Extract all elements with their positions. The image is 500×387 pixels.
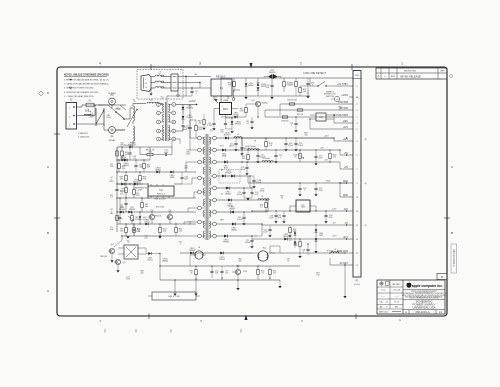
svg-text:7: 7 bbox=[173, 113, 174, 115]
transistor Q5 bbox=[115, 259, 120, 264]
wire hv to T3 pin bbox=[189, 120, 191, 138]
resistor R44 bbox=[139, 176, 142, 181]
svg-text:R26 604: R26 604 bbox=[282, 120, 289, 122]
J2 pin 10 bbox=[349, 210, 353, 212]
bottom resistor block bbox=[152, 292, 196, 300]
J2 pin 15 bbox=[349, 264, 353, 266]
diode CR44 bbox=[156, 171, 159, 174]
svg-text:120V: 120V bbox=[138, 190, 143, 192]
ground Q4 bbox=[110, 260, 113, 262]
fold arrow top bbox=[250, 63, 253, 69]
diode CR43 bbox=[124, 159, 127, 162]
svg-text:2: 2 bbox=[300, 62, 302, 66]
svg-text:1.2KV: 1.2KV bbox=[186, 153, 192, 155]
svg-text:22: 22 bbox=[138, 231, 140, 233]
wire T2 to rectifier bbox=[176, 104, 183, 106]
zener VR1 bbox=[139, 216, 142, 219]
resistor R32 bbox=[195, 270, 198, 275]
J2 pin 12 bbox=[349, 224, 353, 226]
svg-text:A: A bbox=[47, 289, 49, 293]
T3 primary pin b bbox=[198, 148, 202, 152]
diode CR24 bbox=[190, 252, 193, 255]
svg-text:1N4934: 1N4934 bbox=[229, 209, 235, 211]
resistor R18 bbox=[203, 120, 205, 125]
wire up right bbox=[279, 96, 281, 104]
J2 pin 5 bbox=[349, 154, 353, 156]
cap bank c55 bbox=[294, 142, 297, 144]
filter caps C19 C20 bbox=[242, 191, 245, 193]
svg-text:BR1: BR1 bbox=[223, 109, 228, 111]
svg-text:2N4403: 2N4403 bbox=[261, 103, 267, 105]
ground C16 bbox=[240, 153, 243, 155]
rail E horizontal bbox=[117, 197, 196, 199]
revision history table bbox=[376, 68, 447, 79]
svg-text:470uF: 470uF bbox=[237, 219, 243, 221]
wire r2 row bbox=[221, 116, 246, 118]
capacitor C10 bbox=[132, 228, 135, 230]
svg-text:2.2: 2.2 bbox=[260, 207, 263, 209]
wire bottom join bbox=[221, 278, 223, 280]
extra rail T2 right to T3 bbox=[176, 121, 196, 123]
T3 secondary pin 3 bbox=[213, 160, 217, 164]
note ground symbol 4 bbox=[69, 87, 72, 89]
cap C41 bbox=[134, 164, 137, 166]
wire bridge left down bbox=[213, 109, 215, 121]
zone tick bottom bbox=[148, 314, 150, 320]
pulse transformer T4A bbox=[195, 251, 203, 259]
circled +40 callout bbox=[334, 96, 339, 101]
svg-text:1N4002: 1N4002 bbox=[133, 181, 140, 183]
wire J1 lower to T1 bbox=[77, 123, 105, 125]
EMI line filter dashed enclosure bbox=[137, 70, 183, 100]
J2 pin 1 bbox=[349, 103, 353, 105]
rail mid top bbox=[221, 95, 310, 97]
capacitor C22 bbox=[250, 239, 253, 241]
svg-text:BAT RETURN: BAT RETURN bbox=[334, 114, 349, 117]
svg-text:B: B bbox=[451, 231, 453, 235]
svg-text:9: 9 bbox=[173, 131, 174, 133]
resistor R6 bbox=[141, 203, 144, 208]
resistor R40 bbox=[121, 151, 124, 156]
ground rail right bbox=[298, 256, 301, 258]
rectifier CR11 bbox=[222, 148, 225, 151]
rail D horizontal bbox=[117, 183, 148, 185]
wire filter to relay bottom bbox=[178, 87, 200, 89]
resistor R43 bbox=[125, 176, 128, 181]
filter choke L2 bbox=[234, 137, 242, 138]
left mesh bus bbox=[116, 147, 118, 232]
svg-text:L4 40uH: L4 40uH bbox=[262, 158, 270, 160]
svg-text:1N4446: 1N4446 bbox=[123, 165, 129, 167]
svg-text:1N914: 1N914 bbox=[219, 259, 224, 261]
-12 rail bbox=[252, 210, 349, 212]
svg-text:470: 470 bbox=[273, 272, 276, 274]
resistor R41 bbox=[118, 164, 121, 169]
wire to C16 bbox=[241, 138, 243, 146]
capacitor C16 electrolytic bbox=[240, 146, 243, 148]
ground under relay bbox=[215, 96, 217, 99]
diode CR42 bbox=[121, 159, 124, 162]
wire snubber up bbox=[139, 147, 141, 155]
svg-text:K1: K1 bbox=[220, 86, 224, 90]
T3 primary pin c bbox=[198, 160, 202, 164]
title block left column grid bbox=[402, 280, 404, 314]
transistor Q4 bbox=[109, 248, 114, 253]
ground mid bbox=[158, 236, 161, 238]
zener VR4 stack bbox=[315, 229, 318, 232]
cap C70 bbox=[220, 270, 223, 272]
zone tick bottom 2 bbox=[355, 314, 357, 320]
wire T2 top to relay bbox=[166, 96, 168, 102]
fold arrow bottom bbox=[245, 315, 248, 321]
resistor R33 bbox=[257, 270, 260, 275]
svg-text:P GND: P GND bbox=[327, 250, 334, 252]
svg-text:.01: .01 bbox=[287, 260, 289, 262]
svg-text:R24 PLUM: R24 PLUM bbox=[287, 99, 297, 101]
svg-text:.X ±.1: .X ±.1 bbox=[381, 290, 386, 292]
svg-text:+170V: +170V bbox=[189, 101, 196, 103]
svg-text:L3 40uH: L3 40uH bbox=[248, 146, 256, 148]
svg-text:INITIAL RELEASE: INITIAL RELEASE bbox=[400, 75, 421, 78]
J2 pin 14 bbox=[349, 252, 353, 254]
svg-text:1: 1 bbox=[158, 104, 159, 106]
T3 primary pin h bbox=[198, 234, 202, 238]
rectifier CR2 bbox=[182, 116, 185, 119]
svg-text:240VAC: 240VAC bbox=[108, 139, 116, 142]
svg-text:L2: L2 bbox=[237, 134, 239, 136]
T2 pin 6 bbox=[172, 103, 176, 107]
wire interlock to J2 bbox=[334, 85, 349, 87]
resistor R15 bbox=[147, 153, 153, 155]
svg-text:.1: .1 bbox=[304, 190, 306, 192]
wire stub s1 bbox=[299, 86, 301, 96]
control IC U1 bbox=[148, 186, 174, 196]
wire relay to T2 area bbox=[220, 99, 222, 103]
junction dots secondary bbox=[241, 149, 242, 150]
resistor R46 bbox=[133, 228, 136, 233]
rail bottom feedback bbox=[180, 252, 252, 254]
secondary extra C51 bbox=[274, 154, 277, 156]
svg-text:-12V: -12V bbox=[332, 208, 337, 210]
T3 secondary pin 2 bbox=[213, 148, 217, 152]
wire stub bbox=[295, 90, 297, 96]
svg-text:+40: +40 bbox=[336, 99, 339, 101]
T2 pin 3 bbox=[157, 120, 161, 124]
voltage select switch S1 bbox=[116, 112, 124, 119]
svg-text:1: 1 bbox=[401, 62, 403, 66]
svg-text:3. DENOTES POWER GROUND.: 3. DENOTES POWER GROUND. bbox=[64, 88, 94, 90]
left column resistor Rc bbox=[116, 216, 119, 221]
secondary area extra cap bank bbox=[284, 142, 287, 144]
svg-text:330: 330 bbox=[305, 134, 308, 136]
transistor Q2 bbox=[167, 214, 172, 219]
rail7 secondary bbox=[217, 211, 250, 213]
wire filter to relay top bbox=[178, 76, 211, 78]
wire CR1 to CR2 bbox=[182, 110, 184, 116]
diode CR41 bbox=[129, 146, 132, 149]
svg-text:VM68: VM68 bbox=[223, 100, 228, 102]
svg-text:25EV: 25EV bbox=[109, 181, 114, 183]
svg-text:G: G bbox=[145, 83, 147, 85]
diode CR6 bbox=[120, 211, 123, 214]
svg-text:100: 100 bbox=[333, 157, 336, 159]
svg-text:REG 4.7: REG 4.7 bbox=[157, 194, 166, 196]
zone tick right bbox=[444, 217, 450, 219]
svg-text:APP: APP bbox=[441, 70, 446, 73]
svg-text:4. DENOTES SECONDARY GRO: 4. DENOTES SECONDARY GROUND. bbox=[64, 91, 99, 94]
zone tick left bbox=[54, 133, 60, 135]
svg-text:B: B bbox=[47, 231, 49, 235]
gnd bus sec bbox=[248, 182, 349, 184]
metric cell bbox=[380, 282, 383, 285]
bottom rail 2 bbox=[160, 265, 300, 267]
T3 secondary pin 5 bbox=[213, 186, 217, 190]
svg-text:LOW LINE DETECT: LOW LINE DETECT bbox=[303, 72, 326, 75]
inductor L3 bbox=[248, 149, 259, 150]
drop from filter wires to primary bbox=[185, 77, 187, 97]
diode CR61 bbox=[234, 116, 237, 119]
capacitor C25 bbox=[270, 84, 273, 86]
zener stack VR5 bbox=[294, 232, 297, 235]
svg-text:.047: .047 bbox=[225, 272, 228, 274]
svg-text:UNIVERSAL USA: UNIVERSAL USA bbox=[412, 306, 435, 310]
wire primary feed 3 bbox=[194, 191, 197, 193]
svg-text:1N4B: 1N4B bbox=[170, 177, 175, 179]
svg-text:2N2646: 2N2646 bbox=[162, 260, 168, 262]
svg-text:4: 4 bbox=[99, 62, 101, 66]
left column resistor Ra bbox=[116, 151, 119, 156]
svg-text:U1: U1 bbox=[159, 188, 163, 192]
secondary extra caps row1 bbox=[234, 142, 237, 144]
svg-text:GND: GND bbox=[326, 180, 331, 182]
svg-text:8: 8 bbox=[173, 122, 174, 124]
resistor R4 bbox=[125, 188, 128, 193]
note ground symbol 3 bbox=[69, 79, 72, 81]
revision diamond marker bbox=[39, 91, 44, 96]
wire primary feed 5 bbox=[184, 221, 197, 223]
junction bbox=[241, 161, 242, 162]
resistor R16 bbox=[195, 126, 198, 131]
wire T5 to rail bbox=[158, 253, 160, 255]
T2 pin 4 bbox=[157, 129, 161, 133]
rail G horizontal bbox=[117, 223, 196, 225]
resistor R30 bbox=[299, 242, 302, 247]
capacitor C8 bbox=[124, 202, 127, 204]
diode CR20 pair bbox=[257, 83, 260, 86]
grounds bottom bbox=[173, 294, 176, 296]
wire T2-9 to hv bbox=[175, 121, 177, 123]
svg-text:470: 470 bbox=[120, 194, 123, 196]
drop 2 bbox=[193, 88, 195, 99]
svg-text:1N914: 1N914 bbox=[147, 260, 152, 262]
J2 pin 13 bbox=[349, 238, 353, 240]
SCR Q3 bbox=[235, 269, 240, 274]
T3 secondary pin 1 bbox=[213, 136, 217, 140]
thermal pair dashed enclosure bbox=[219, 170, 240, 184]
resistor R22 bbox=[299, 88, 302, 93]
opto U4 bbox=[316, 113, 326, 121]
capacitor C21 bbox=[242, 216, 245, 218]
svg-text:.022: .022 bbox=[144, 237, 147, 239]
svg-text:.XX ±.03: .XX ±.03 bbox=[393, 290, 400, 292]
J2 pin 4 bbox=[349, 122, 353, 124]
wire gnd to J2 bbox=[339, 183, 341, 197]
pot arrow mark 1 bbox=[298, 154, 303, 158]
transistor Q1 bbox=[149, 214, 154, 219]
ac ret wire bbox=[330, 264, 349, 266]
inductor L4 bbox=[262, 161, 273, 162]
rail9 secondary bbox=[217, 235, 258, 237]
diode CR46 bbox=[145, 223, 148, 226]
wire primary feed bbox=[186, 161, 197, 163]
svg-text:3: 3 bbox=[199, 62, 201, 66]
svg-text:6: 6 bbox=[173, 104, 174, 106]
T3 primary pin d bbox=[198, 176, 202, 180]
svg-text:(0-6,3): (0-6,3) bbox=[354, 284, 360, 286]
svg-text:3°: 3° bbox=[386, 306, 388, 308]
zone tick top bbox=[150, 64, 152, 70]
svg-text:220uF: 220uF bbox=[245, 242, 251, 244]
chassis ground in filter bbox=[150, 88, 152, 94]
J2 pin 6 bbox=[349, 85, 353, 87]
T1 tap arrow bbox=[127, 109, 137, 127]
svg-text:.1: .1 bbox=[280, 157, 282, 159]
bridge rectifier BR1 bbox=[220, 103, 232, 115]
wire input mid stub bbox=[77, 115, 96, 117]
zener VR3 bbox=[245, 83, 248, 86]
T2 pin 5 bbox=[157, 137, 161, 141]
cap C42 bbox=[180, 176, 183, 178]
svg-text:——: —— bbox=[395, 296, 399, 298]
resistor R26 bbox=[282, 116, 288, 118]
J2 pin 7 bbox=[349, 168, 353, 170]
J2 pin 6 bbox=[349, 140, 353, 142]
rectifier CR10 bbox=[225, 136, 228, 139]
wire L9 bbox=[338, 252, 345, 254]
diode CR4 bbox=[134, 183, 137, 186]
svg-text:4.7K: 4.7K bbox=[134, 219, 139, 221]
rectifier CR12 bbox=[224, 160, 227, 163]
svg-text:JT 2.0: JT 2.0 bbox=[394, 302, 399, 304]
crowbar diode pair CR2A bbox=[268, 74, 273, 79]
parallel cap C16B bbox=[252, 179, 255, 181]
svg-text:1N4934: 1N4934 bbox=[269, 72, 276, 74]
svg-text:.01: .01 bbox=[246, 123, 248, 125]
revision balloon right of table bbox=[450, 74, 453, 77]
svg-text:L9: L9 bbox=[334, 249, 336, 251]
T3 primary pin g bbox=[198, 220, 202, 224]
svg-text:7905: 7905 bbox=[301, 207, 307, 209]
svg-text:560: 560 bbox=[122, 168, 125, 170]
T2 pin 2 bbox=[157, 111, 161, 115]
wire J1 to fuse bbox=[77, 106, 83, 108]
rail top secondary bbox=[221, 77, 354, 79]
svg-text:220uF: 220uF bbox=[298, 145, 304, 147]
diode CR21 bbox=[284, 238, 287, 241]
rectifier CR17 bbox=[232, 222, 235, 225]
svg-text:+21V: +21V bbox=[332, 236, 337, 238]
zone tick left bbox=[54, 217, 60, 219]
junction bbox=[344, 264, 345, 265]
secondary extra R50 bbox=[265, 142, 268, 147]
T3 primary pin f bbox=[198, 206, 202, 210]
diode CR45 bbox=[170, 171, 173, 174]
cap C26 bbox=[294, 122, 297, 124]
cap C61 bbox=[250, 120, 253, 122]
svg-text:MPQ-B1: MPQ-B1 bbox=[100, 256, 107, 258]
left column cap Cb bbox=[115, 188, 118, 190]
junction dots bottom bbox=[159, 265, 160, 266]
rail8 secondary bbox=[217, 223, 262, 225]
svg-text:.0047: .0047 bbox=[184, 167, 188, 169]
apple computer inc logo band bbox=[403, 289, 445, 291]
J2 pin 8 bbox=[349, 128, 353, 130]
capacitor C18 bbox=[245, 166, 248, 168]
wire bbox=[334, 122, 349, 124]
filter output header J0 bbox=[171, 74, 178, 91]
wire fuse to jack bbox=[94, 104, 108, 106]
svg-text:+12V: +12V bbox=[323, 135, 329, 137]
arrow marker -5 bbox=[346, 224, 348, 226]
svg-text:050-4001-A: 050-4001-A bbox=[415, 310, 429, 314]
junction bbox=[129, 183, 130, 184]
capacitor C17 bbox=[256, 154, 259, 156]
svg-text:1N914: 1N914 bbox=[233, 114, 238, 116]
wire bbox=[119, 198, 121, 212]
svg-text:1.25A/220V: 1.25A/220V bbox=[78, 136, 90, 139]
diode CR27 bbox=[148, 252, 151, 255]
svg-text:47: 47 bbox=[339, 108, 341, 110]
rectifier CR15 bbox=[228, 198, 231, 201]
J2 pin 4B bbox=[349, 96, 353, 98]
rail4 secondary bbox=[217, 175, 250, 177]
wire primary feed 4 bbox=[188, 207, 197, 209]
svg-text:47: 47 bbox=[190, 273, 192, 275]
T3 secondary pin 4 bbox=[213, 174, 217, 178]
svg-text:1N914: 1N914 bbox=[144, 221, 149, 223]
T2 pin 8 bbox=[172, 120, 176, 124]
input wiring cleanup cover bbox=[98, 104, 126, 106]
svg-text:470uF: 470uF bbox=[237, 194, 243, 196]
capacitor C27 bbox=[314, 155, 317, 157]
T2 pin 9 bbox=[172, 129, 176, 133]
svg-text:10: 10 bbox=[173, 139, 175, 141]
svg-text:3: 3 bbox=[158, 122, 159, 124]
rail +12 main bbox=[242, 138, 349, 141]
T3 secondary pin 9 bbox=[213, 234, 217, 238]
rail B horizontal bbox=[117, 159, 150, 161]
ground bridge bbox=[231, 129, 233, 131]
pwr gnd rail bbox=[270, 252, 349, 254]
resistor R70 bbox=[269, 270, 272, 275]
inductor L5 bbox=[258, 199, 269, 200]
title block outline bbox=[377, 280, 445, 314]
svg-text:5: 5 bbox=[158, 139, 159, 141]
rectifier CR13 pair bbox=[222, 174, 225, 177]
svg-text:2. CAPACITOR VALUES ARE IN M: 2. CAPACITOR VALUES ARE IN MICROFARADS. bbox=[64, 83, 109, 86]
inductor L1 bbox=[84, 114, 91, 115]
svg-text:100uF: 100uF bbox=[240, 169, 246, 171]
cap C52 bbox=[282, 214, 285, 216]
svg-text:+5V: +5V bbox=[324, 159, 328, 161]
-12 input cap bbox=[274, 214, 277, 216]
svg-text:T1: T1 bbox=[132, 99, 136, 103]
wire -12 connect bbox=[315, 206, 317, 211]
svg-text:050-34-0001-A: 050-34-0001-A bbox=[452, 249, 456, 267]
wire osc bbox=[114, 240, 122, 247]
resistor R28 bbox=[299, 154, 302, 159]
diode CR3 bbox=[121, 183, 124, 186]
